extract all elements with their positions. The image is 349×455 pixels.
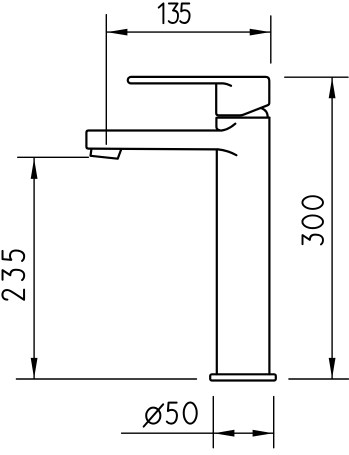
- base plate: [210, 374, 276, 380]
- label diameter 50: [144, 403, 197, 427]
- body top edge: [218, 116, 270, 118]
- arrowhead 135 left: [107, 29, 128, 36]
- column left edge lower: [216, 150, 218, 374]
- spout top tangent flare: [222, 124, 236, 131]
- label 235 (rotated): [2, 250, 24, 299]
- dim 135 extension line right: [270, 16, 272, 63]
- arrowhead 235 bottom: [31, 358, 38, 379]
- ground line right segment: [289, 378, 349, 380]
- label 135: [159, 3, 190, 23]
- arrowhead 300 bottom: [329, 358, 336, 379]
- arrowhead 135 right: [250, 29, 271, 36]
- arrowhead 300 top: [329, 78, 336, 99]
- dim 300 dimension line: [331, 78, 333, 379]
- dim 235 dimension line: [33, 158, 35, 378]
- arrowhead diameter50 left: [214, 430, 235, 437]
- spout bottom tangent flare: [218, 149, 237, 155]
- dim diameter 50 extension line right: [273, 397, 275, 448]
- dim 300 extension line top: [285, 76, 348, 78]
- label 300 (rotated): [302, 196, 323, 244]
- arrowhead diameter50 right: [253, 430, 274, 437]
- spout outline: [86, 131, 221, 150]
- arrowhead 235 top: [31, 158, 38, 179]
- body left edge upper with fillet into spout: [216, 118, 219, 130]
- dim 235 extension line: [18, 156, 89, 158]
- body right edge: [268, 118, 270, 375]
- ground line left segment: [16, 378, 196, 380]
- dim 135 extension line left: [105, 15, 107, 145]
- handle lever and block silhouette: [128, 77, 270, 115]
- dim diameter 50 extension line left: [212, 397, 214, 448]
- dim diameter 50 dimension line with leader: [122, 432, 274, 434]
- dim 135 dimension line: [107, 31, 270, 33]
- handle rear bottom fillet: [262, 109, 268, 118]
- aerator outlet: [91, 149, 122, 159]
